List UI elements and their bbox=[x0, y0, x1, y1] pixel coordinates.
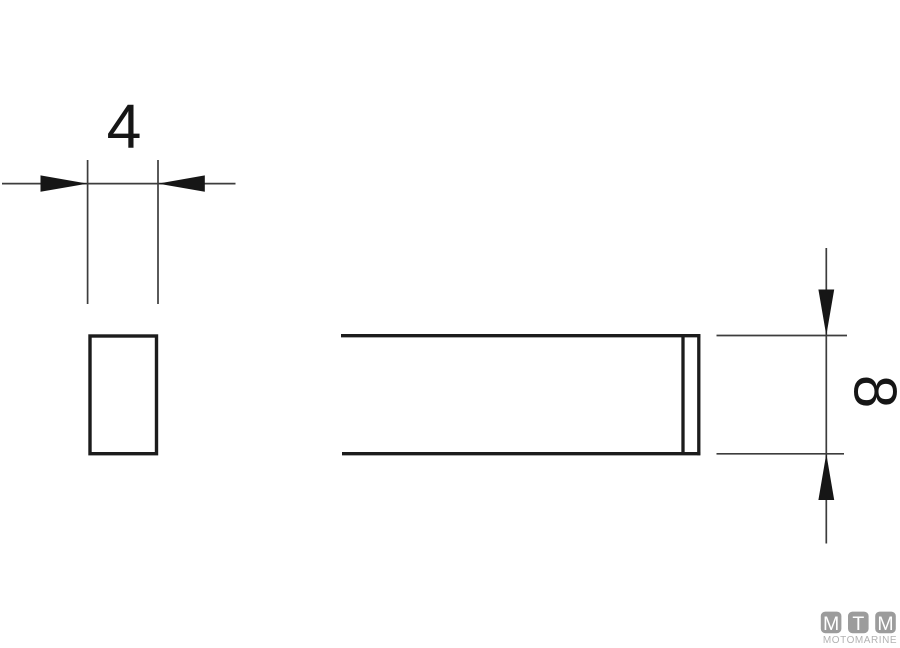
side view bottom line bbox=[342, 452, 700, 455]
side view right edge bbox=[697, 334, 700, 455]
side view top line bbox=[341, 334, 700, 337]
logo tile M 1 bbox=[821, 612, 842, 634]
extension line bottom of dim 8 bbox=[717, 453, 845, 455]
logo tile M 2 bbox=[875, 612, 896, 634]
svg-text:M: M bbox=[823, 613, 839, 635]
arrow top (points down at top extension line) bbox=[818, 290, 834, 336]
svg-text:4: 4 bbox=[107, 91, 142, 161]
arrow right (points left at right extension line) bbox=[158, 175, 205, 191]
extension line top of dim 8 bbox=[717, 335, 848, 337]
end view rectangle (key cross-section) bbox=[90, 336, 157, 454]
dimension line for 4 bbox=[2, 183, 236, 185]
side view inner end line bbox=[681, 335, 684, 456]
svg-text:T: T bbox=[852, 613, 864, 635]
svg-text:8: 8 bbox=[842, 375, 900, 408]
dimension line for 8 bbox=[825, 248, 827, 544]
extension line left of dim 4 bbox=[87, 160, 89, 304]
logo tile T bbox=[848, 612, 869, 634]
extension line right of dim 4 bbox=[157, 160, 159, 304]
arrow bottom (points up at bottom extension line) bbox=[818, 454, 834, 500]
svg-text:M: M bbox=[877, 613, 893, 635]
svg-text:MOTOMARINE: MOTOMARINE bbox=[823, 635, 897, 646]
arrow left (points right at left extension line) bbox=[41, 175, 88, 191]
